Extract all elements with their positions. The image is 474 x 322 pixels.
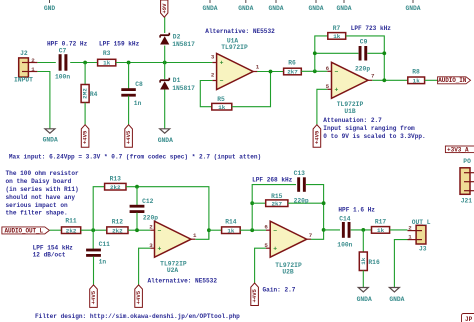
wire rail2 up to C13 row xyxy=(252,185,296,231)
svg-text:LPF 159 kHz: LPF 159 kHz xyxy=(99,41,140,48)
wire C7 to R3 xyxy=(70,62,97,64)
wire rail up to R13 xyxy=(93,187,104,231)
wire R3 to U1A pin3 xyxy=(116,62,213,64)
svg-text:1: 1 xyxy=(31,66,35,73)
svg-text:C7: C7 xyxy=(59,47,67,54)
svg-text:GNDA: GNDA xyxy=(389,296,404,303)
wire R11 to R12 xyxy=(81,229,107,231)
resistor R3 1k xyxy=(98,50,116,66)
capacitor C9 220p xyxy=(355,39,370,73)
wire J2 pin1 to GNDA xyxy=(37,72,50,129)
svg-text:R12: R12 xyxy=(112,219,124,226)
wire C14 to R17 xyxy=(351,229,372,231)
supply +9V xyxy=(161,0,168,17)
svg-text:HPF 1.6 Hz: HPF 1.6 Hz xyxy=(338,207,375,214)
wire R15 row left xyxy=(252,202,266,204)
svg-text:1k: 1k xyxy=(413,77,421,84)
svg-text:serious impact on: serious impact on xyxy=(6,202,69,209)
svg-text:C14: C14 xyxy=(339,215,351,222)
op-amp U1B TL972IP xyxy=(326,62,375,115)
ground GNDA under J2 xyxy=(43,129,58,144)
node junction output / right rail xyxy=(382,78,386,82)
svg-text:+4V5: +4V5 xyxy=(313,130,320,144)
svg-text:LPF 723 kHz: LPF 723 kHz xyxy=(351,25,392,32)
svg-text:C8: C8 xyxy=(135,81,143,88)
capacitor C11 1n xyxy=(86,241,110,266)
op-amp U2A TL972IP xyxy=(149,221,197,274)
svg-text:Alternative: NE5532: Alternative: NE5532 xyxy=(205,28,275,35)
svg-text:D1: D1 xyxy=(173,77,181,84)
svg-text:U1B: U1B xyxy=(344,108,356,115)
svg-text:R15: R15 xyxy=(271,193,283,200)
svg-text:2k7: 2k7 xyxy=(271,200,282,207)
wire U1B pin5 to +4V5 xyxy=(317,89,327,124)
wire R17 to J3 pin2 xyxy=(390,229,408,231)
wire U1A output to R6 xyxy=(257,71,283,73)
svg-text:+: + xyxy=(220,60,224,67)
wire down to R16 xyxy=(362,230,364,252)
note 100 ohm resistor text block xyxy=(6,170,79,217)
capacitor C7 100n xyxy=(55,47,70,80)
wire R5 to U1A output xyxy=(232,72,271,107)
svg-text:LPF 268 kHz: LPF 268 kHz xyxy=(252,176,293,183)
resistor R17 1k xyxy=(372,219,390,234)
svg-text:1k: 1k xyxy=(333,33,341,40)
supply +4V5 under U2B pin5 xyxy=(251,283,259,306)
svg-text:2: 2 xyxy=(31,57,35,64)
op-amp U2B TL972IP xyxy=(264,221,312,275)
svg-text:2k7: 2k7 xyxy=(287,69,298,76)
wire U1A pin2 feedback loop xyxy=(200,81,212,107)
svg-text:TL972IP: TL972IP xyxy=(221,44,248,51)
node junction C9 left xyxy=(313,51,317,55)
svg-text:2: 2 xyxy=(408,225,412,232)
ground net labels top row xyxy=(44,0,421,12)
node junction R15 left xyxy=(250,201,254,205)
wire C13 to right rail2 xyxy=(306,185,324,230)
net flag AUDIO_IN xyxy=(438,77,471,84)
svg-text:2: 2 xyxy=(149,224,153,231)
node junction U2B pin6 / rail2 xyxy=(250,228,254,232)
svg-text:R6: R6 xyxy=(288,60,296,67)
svg-text:1N5817: 1N5817 xyxy=(172,41,195,48)
svg-text:R11: R11 xyxy=(65,218,77,225)
wire to C14 xyxy=(324,229,340,231)
wire to R14 xyxy=(209,229,222,231)
svg-text:R7: R7 xyxy=(333,25,341,32)
svg-text:−: − xyxy=(273,227,277,234)
svg-text:R14: R14 xyxy=(225,219,237,226)
svg-text:GNDA: GNDA xyxy=(43,137,58,144)
resistor R4 2M2 (bias) xyxy=(81,85,98,103)
wire D1 to GNDA xyxy=(164,90,166,129)
wire R4 to +4V5 xyxy=(84,103,86,125)
node junction C14 row left xyxy=(322,228,326,232)
svg-text:12 dB/oct: 12 dB/oct xyxy=(33,252,66,259)
svg-text:220p: 220p xyxy=(294,198,309,205)
resistor R12 2k2 xyxy=(107,219,128,235)
svg-text:should not have any: should not have any xyxy=(6,194,76,201)
node junction C12 bottom xyxy=(135,228,139,232)
connector J3 OUT_L xyxy=(408,219,431,253)
wire J2 pin2 to C7 xyxy=(37,62,55,64)
wire R16 to GNDA xyxy=(362,271,364,288)
svg-text:1k: 1k xyxy=(377,227,385,234)
svg-text:HPF 0.72 Hz: HPF 0.72 Hz xyxy=(47,41,88,48)
svg-text:+: + xyxy=(335,87,339,94)
wire R15 to right rail2 xyxy=(288,202,324,204)
wire R12 to U2A pin2 xyxy=(128,229,150,231)
svg-text:U2A: U2A xyxy=(167,267,179,274)
supply label +3V3_A (cut off) xyxy=(445,146,474,154)
supply +4V5 under C8 xyxy=(125,125,133,148)
wire C12 bottom to pin2 node xyxy=(136,213,138,231)
svg-text:0 to 9V is scaled to 3.3Vpp.: 0 to 9V is scaled to 3.3Vpp. xyxy=(323,133,425,140)
label LPF 154 kHz 12 dB/oct xyxy=(33,244,74,258)
svg-text:C11: C11 xyxy=(99,241,111,248)
svg-text:1k: 1k xyxy=(360,257,367,265)
svg-text:2: 2 xyxy=(211,72,215,79)
svg-text:R5: R5 xyxy=(217,96,225,103)
wire C12 top xyxy=(136,187,138,205)
wire junction down to C8 xyxy=(128,63,130,90)
svg-text:C9: C9 xyxy=(360,39,368,46)
wire C11 to +4V5 xyxy=(93,256,95,285)
supply +4V5 under C11 xyxy=(90,285,98,308)
wire R7 to right rail xyxy=(346,36,385,80)
supply +4V5 under R4 xyxy=(81,125,89,148)
svg-text:INPUT: INPUT xyxy=(14,77,33,84)
svg-text:Alternative: NE5532: Alternative: NE5532 xyxy=(148,278,218,285)
svg-text:J21: J21 xyxy=(461,197,473,204)
svg-text:GNDA: GNDA xyxy=(268,5,283,12)
svg-text:the filter shape.: the filter shape. xyxy=(6,210,68,217)
svg-text:1k: 1k xyxy=(227,227,235,234)
ground GNDA under D1 xyxy=(158,129,173,144)
svg-text:2k2: 2k2 xyxy=(112,227,123,234)
svg-text:C12: C12 xyxy=(142,198,154,205)
svg-text:3: 3 xyxy=(211,53,215,60)
connector J2 INPUT xyxy=(14,50,37,83)
svg-text:6: 6 xyxy=(264,224,268,231)
resistor R15 2k7 xyxy=(266,193,288,207)
svg-text:+4V5: +4V5 xyxy=(82,130,89,144)
svg-text:GNDA: GNDA xyxy=(405,5,420,12)
supply +4V5 under U2A pin3 xyxy=(135,285,143,308)
resistor R14 1k xyxy=(222,219,241,235)
capacitor C12 220p xyxy=(130,198,159,222)
resistor R13 2k2 xyxy=(105,176,126,191)
svg-text:R4: R4 xyxy=(90,91,98,98)
diode D2 1N5817 xyxy=(160,33,195,48)
svg-text:7: 7 xyxy=(371,73,375,80)
svg-text:GNDA: GNDA xyxy=(202,5,217,12)
node junction R14 row / rail xyxy=(207,228,211,232)
svg-text:+3V3_A: +3V3_A xyxy=(447,147,469,154)
wire junction down to R4 xyxy=(84,63,86,85)
svg-text:220p: 220p xyxy=(355,66,370,73)
svg-text:100n: 100n xyxy=(55,74,70,81)
resistor R16 1k xyxy=(359,252,380,271)
svg-text:−: − xyxy=(335,69,339,76)
node junction diodes D1 D2 xyxy=(163,61,167,65)
svg-text:−: − xyxy=(158,227,162,234)
svg-text:Max input: 6.24Vpp = 3.3V * 0.: Max input: 6.24Vpp = 3.3V * 0.7 (from co… xyxy=(9,153,261,160)
resistor R8 1k xyxy=(408,69,425,85)
svg-text:6: 6 xyxy=(326,65,330,72)
svg-text:+9V: +9V xyxy=(161,3,168,14)
svg-text:1n: 1n xyxy=(134,100,142,107)
svg-text:on the Daisy board: on the Daisy board xyxy=(6,178,72,185)
svg-text:GNDA: GNDA xyxy=(357,296,372,303)
wire J3 pin1 to GNDA xyxy=(394,240,407,288)
wire R14 to U2B pin6 xyxy=(240,229,266,231)
svg-text:AUDIO_IN: AUDIO_IN xyxy=(438,77,467,84)
svg-text:(in series with R11): (in series with R11) xyxy=(6,186,79,193)
resistor R5 1k xyxy=(212,96,232,111)
svg-text:1: 1 xyxy=(256,64,260,71)
svg-text:Input signal ranging from: Input signal ranging from xyxy=(323,125,415,132)
wire R8 to AUDIO_IN flag xyxy=(425,79,438,81)
svg-text:GNDA: GNDA xyxy=(336,5,351,12)
svg-text:2M2: 2M2 xyxy=(82,88,89,99)
wire flag to R11 xyxy=(49,229,61,231)
node junction U1B pin6 / feedback rail xyxy=(313,69,317,73)
svg-text:+: + xyxy=(158,245,162,252)
svg-text:PO: PO xyxy=(463,158,471,165)
attenuation note text xyxy=(323,117,425,140)
svg-text:Gain: 2.7: Gain: 2.7 xyxy=(263,286,296,293)
svg-text:+: + xyxy=(273,245,277,252)
resistor R11 2k2 xyxy=(62,218,81,235)
svg-text:220p: 220p xyxy=(143,215,158,222)
svg-text:2k2: 2k2 xyxy=(110,184,121,191)
svg-text:J3: J3 xyxy=(419,246,427,253)
connector J21 (cut off) xyxy=(460,168,474,205)
svg-text:1: 1 xyxy=(193,232,197,239)
svg-text:The 100 ohm resistor: The 100 ohm resistor xyxy=(6,170,79,177)
wire U2B pin5 to +4V5 xyxy=(255,248,266,283)
wire C8 to +4V5 xyxy=(128,96,130,125)
ground GNDA under R16 xyxy=(357,288,372,304)
svg-text:R16: R16 xyxy=(368,259,380,266)
wire U2A pin3 to +4V5 xyxy=(139,248,151,285)
wire U2A output up to R14 row xyxy=(195,230,209,239)
svg-text:100n: 100n xyxy=(337,242,352,249)
node junction R15 right xyxy=(322,201,326,205)
svg-text:D2: D2 xyxy=(173,33,181,40)
diode D1 1N5817 xyxy=(160,77,195,92)
svg-text:R13: R13 xyxy=(110,176,122,183)
svg-text:U2B: U2B xyxy=(282,268,294,275)
wire junction down to C11 xyxy=(92,230,94,249)
svg-text:1k: 1k xyxy=(218,104,226,111)
svg-text:R3: R3 xyxy=(103,50,111,57)
svg-text:1: 1 xyxy=(408,234,412,241)
svg-text:R17: R17 xyxy=(375,219,387,226)
svg-text:+4V5: +4V5 xyxy=(135,290,142,304)
svg-text:C13: C13 xyxy=(294,170,306,177)
capacitor C14 100n xyxy=(337,215,352,248)
capacitor C8 1n xyxy=(121,81,143,107)
wire C9 row right xyxy=(367,52,384,54)
wire D2 to +9V xyxy=(164,17,166,33)
wire U1B output to R8 xyxy=(372,79,408,81)
svg-text:OUT_L: OUT_L xyxy=(412,219,431,226)
node junction R11/R12/C11/rail xyxy=(91,228,95,232)
svg-text:GND: GND xyxy=(44,5,56,12)
svg-text:Filter design: http://sim.okaw: Filter design: http://sim.okawa-denshi.j… xyxy=(35,313,240,320)
wire junction up to D2 xyxy=(164,46,166,63)
node junction R3/C8 xyxy=(127,61,131,65)
net flag AUDIO_OUT_L xyxy=(2,227,50,234)
ground GNDA under J3 xyxy=(389,288,404,304)
node junction C12 top xyxy=(135,185,139,189)
svg-text:+4V5: +4V5 xyxy=(251,288,258,302)
svg-text:J2: J2 xyxy=(20,50,28,57)
svg-text:1N5817: 1N5817 xyxy=(172,85,195,92)
svg-text:+4V5: +4V5 xyxy=(90,290,97,304)
node junction R16 top xyxy=(361,228,365,232)
svg-text:2k2: 2k2 xyxy=(66,227,77,234)
wire junction down to D1 xyxy=(164,63,166,80)
svg-text:Attenuation: 2.7: Attenuation: 2.7 xyxy=(323,117,382,124)
node junction C9 right xyxy=(382,51,386,55)
svg-text:R8: R8 xyxy=(412,69,420,76)
resistor R7 1k xyxy=(328,25,346,40)
frame label JP (bottom right, cut off) xyxy=(462,314,474,322)
wire R6 to U1B pin6 xyxy=(301,70,327,72)
svg-text:GNDA: GNDA xyxy=(308,5,323,12)
svg-text:LPF 154 kHz: LPF 154 kHz xyxy=(33,244,74,251)
svg-text:7: 7 xyxy=(309,232,313,239)
op-amp U1A TL972IP xyxy=(211,37,260,89)
svg-text:AUDIO_OUT_L: AUDIO_OUT_L xyxy=(5,227,44,234)
wire U2B output up to C14 row xyxy=(311,230,324,239)
resistor R6 2k7 xyxy=(284,60,302,76)
svg-text:JP: JP xyxy=(465,316,473,322)
svg-text:1n: 1n xyxy=(99,259,107,266)
svg-text:1k: 1k xyxy=(103,60,111,67)
svg-text:−: − xyxy=(220,78,224,85)
wire left feedback rail U1B xyxy=(315,36,328,71)
svg-text:+4V5: +4V5 xyxy=(125,130,132,144)
node junction U1A output xyxy=(269,70,273,74)
wire C9 row left xyxy=(315,52,359,54)
svg-text:GNDA: GNDA xyxy=(238,5,253,12)
supply +4V5 under U1B pin5 xyxy=(313,125,321,148)
capacitor C13 220p xyxy=(294,170,309,205)
wire R13 to right rail xyxy=(126,187,209,240)
node junction C7/R4 xyxy=(83,61,87,65)
svg-text:GNDA: GNDA xyxy=(158,137,173,144)
